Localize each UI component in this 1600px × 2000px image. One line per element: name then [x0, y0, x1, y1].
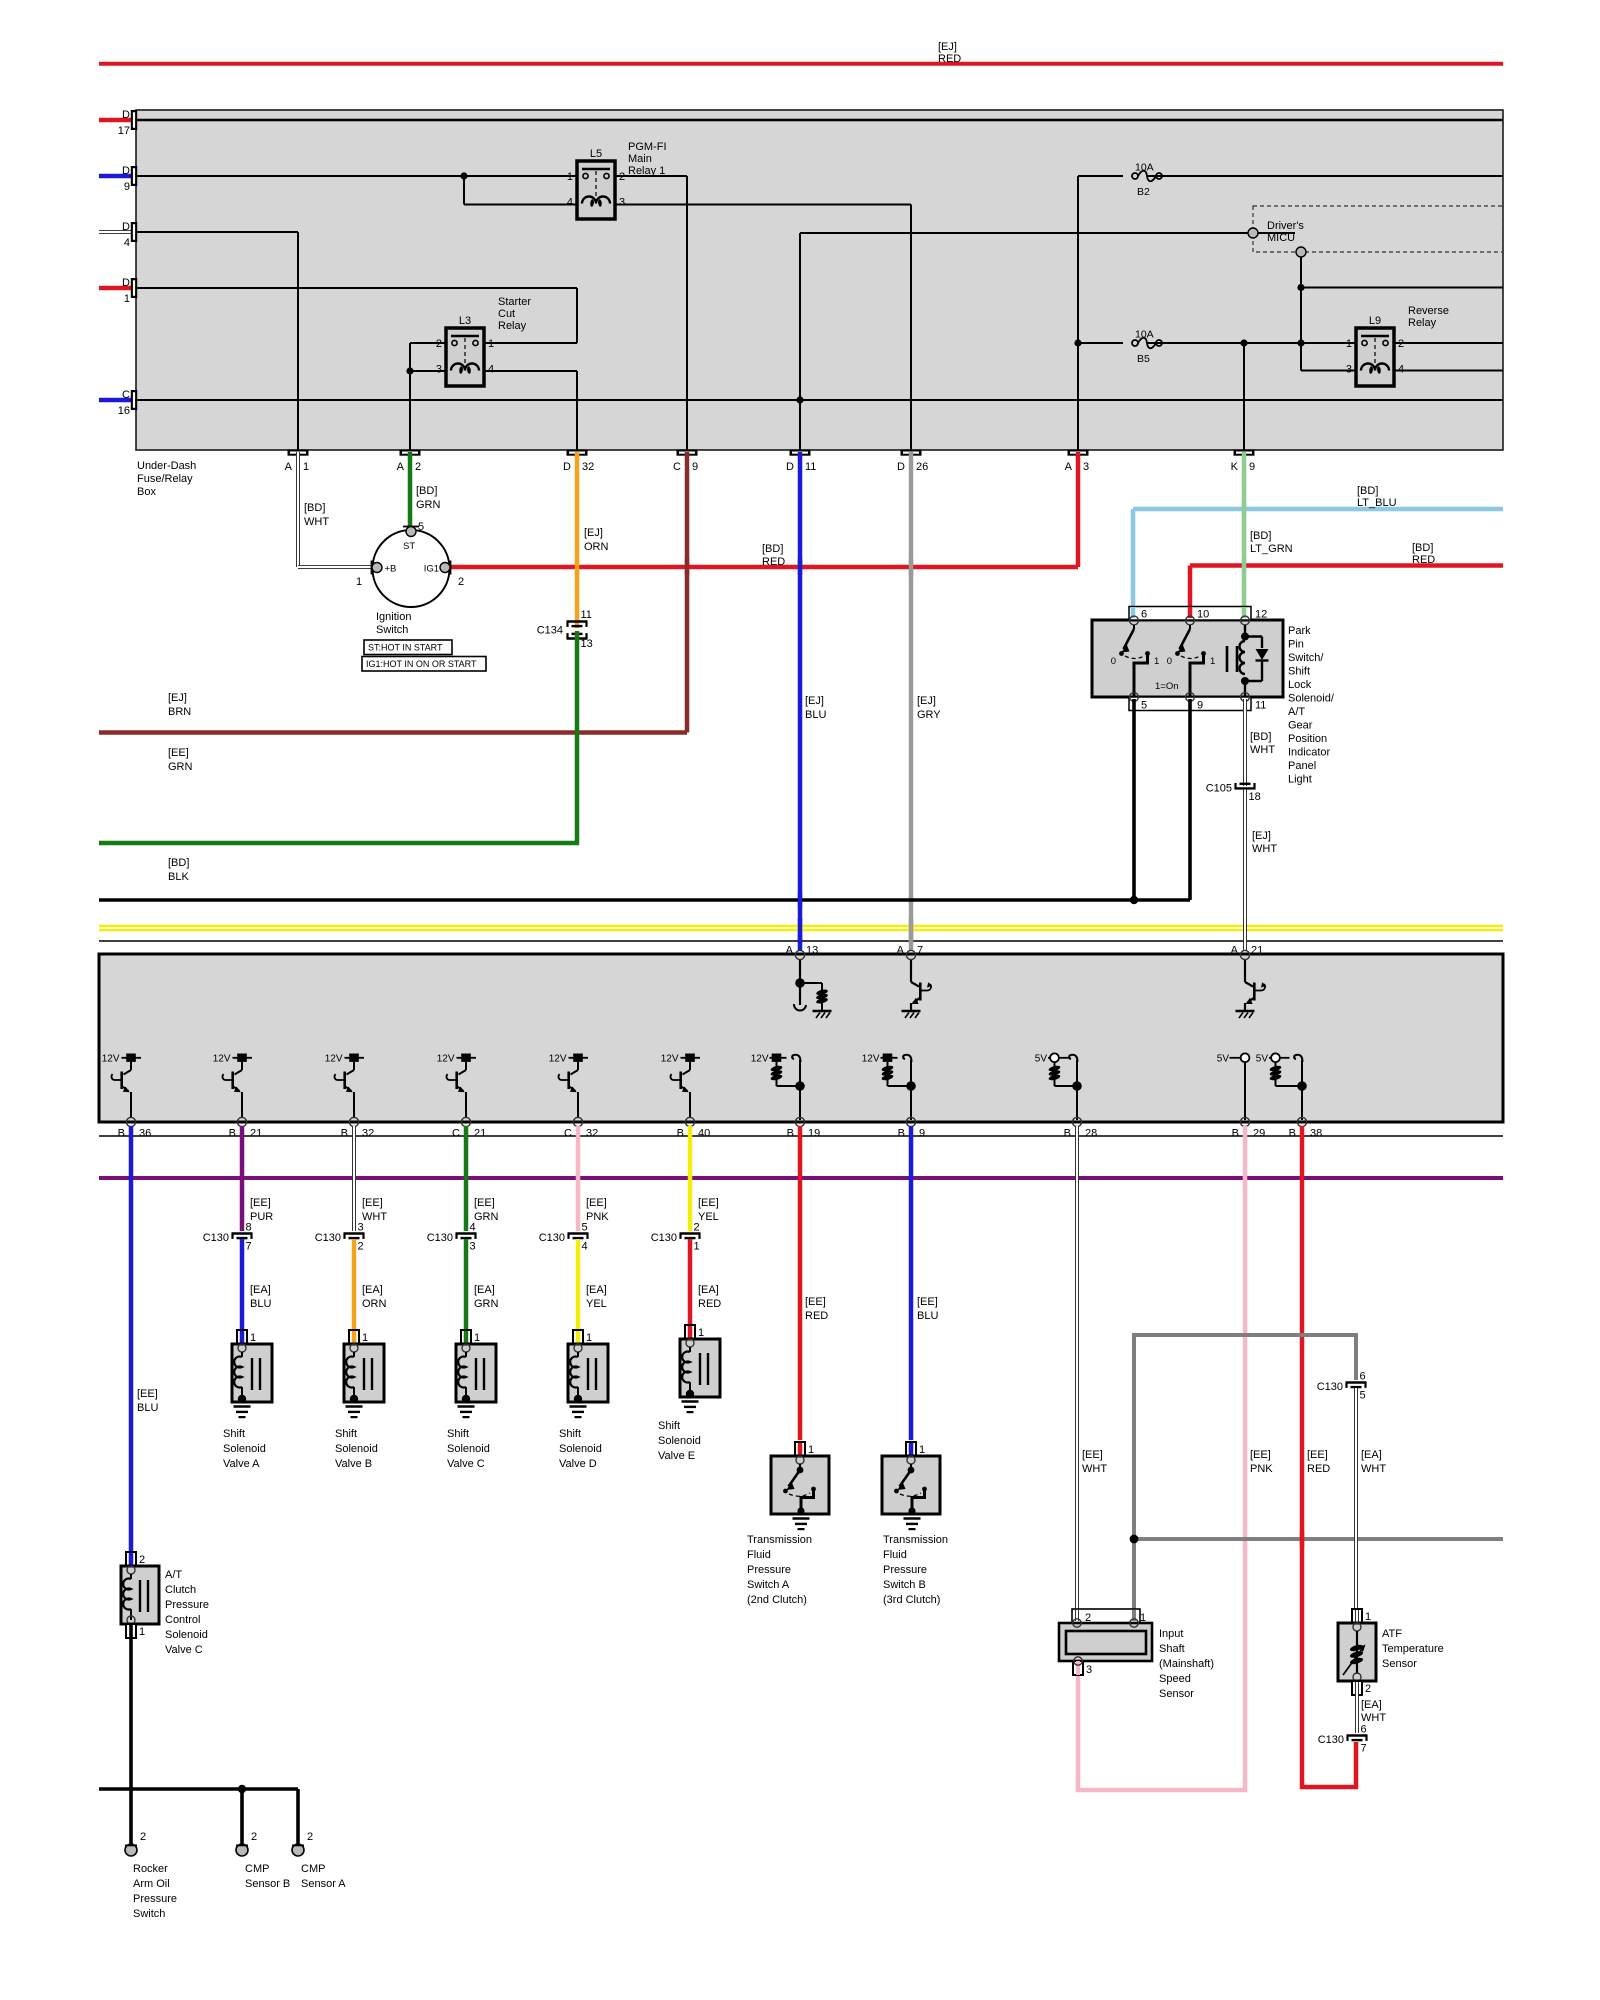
svg-text:[EE]: [EE]	[250, 1197, 271, 1209]
svg-text:Solenoid/: Solenoid/	[1288, 693, 1335, 705]
svg-text:2: 2	[139, 1554, 145, 1566]
svg-text:1: 1	[139, 1626, 145, 1638]
svg-text:Cut: Cut	[498, 308, 515, 320]
svg-text:Valve D: Valve D	[559, 1458, 597, 1470]
svg-text:Shift: Shift	[559, 1428, 581, 1440]
connector pin K9	[1234, 450, 1255, 456]
ECM pin A13	[795, 950, 804, 959]
svg-text:RED: RED	[1307, 1463, 1330, 1475]
svg-text:CMP: CMP	[245, 1863, 269, 1875]
svg-text:Valve E: Valve E	[658, 1450, 695, 1462]
svg-text:RED: RED	[698, 1298, 721, 1310]
svg-text:4: 4	[582, 1241, 588, 1253]
svg-text:B: B	[229, 1128, 236, 1140]
svg-text:ORN: ORN	[362, 1298, 387, 1310]
svg-text:[EJ]: [EJ]	[168, 692, 187, 704]
Under-Dash Fuse/Relay Box	[136, 110, 1503, 450]
ECM A7 transistor	[910, 960, 912, 982]
svg-text:WHT: WHT	[1250, 744, 1275, 756]
svg-text:C: C	[564, 1128, 572, 1140]
svg-text:BLU: BLU	[250, 1298, 271, 1310]
svg-text:Fluid: Fluid	[747, 1549, 771, 1561]
ECM connector rail top	[99, 940, 1503, 942]
connector C130 pins 2/1	[680, 1232, 701, 1234]
svg-text:BLK: BLK	[168, 871, 189, 883]
svg-text:[EE]: [EE]	[698, 1197, 719, 1209]
wire [EE] PUR bus	[99, 1176, 1503, 1180]
svg-text:28: 28	[1085, 1128, 1097, 1140]
wire [EA] WHT C130 to ATF pin1	[1354, 1388, 1358, 1609]
connector D17	[99, 118, 131, 123]
ECM A21 transistor	[1244, 960, 1246, 982]
svg-text:Valve C: Valve C	[165, 1644, 203, 1656]
wire [BD] LT_GRN K9 to park pin 12	[1242, 452, 1247, 618]
svg-text:C: C	[673, 461, 681, 473]
svg-text:3: 3	[1083, 461, 1089, 473]
svg-text:B: B	[677, 1128, 684, 1140]
svg-text:B2: B2	[1137, 186, 1150, 198]
connector pin D32	[567, 450, 588, 456]
svg-text:WHT: WHT	[1252, 843, 1277, 855]
svg-text:4: 4	[567, 197, 573, 209]
connector C16	[99, 398, 131, 403]
svg-text:[EE]: [EE]	[168, 747, 189, 759]
shift solenoid valve B	[349, 1330, 359, 1344]
svg-text:LT_BLU: LT_BLU	[1357, 497, 1397, 509]
svg-text:K: K	[1231, 461, 1239, 473]
svg-text:Transmission: Transmission	[747, 1534, 812, 1546]
relay L3 Starter Cut Relay	[446, 328, 484, 386]
wire MICU line with D11	[800, 232, 1295, 234]
svg-text:D: D	[563, 461, 571, 473]
CMP sensor B pin	[236, 1844, 248, 1856]
ECM box	[99, 954, 1503, 1122]
svg-text:Sensor: Sensor	[1159, 1688, 1194, 1700]
svg-text:1: 1	[1365, 1611, 1371, 1623]
svg-text:(2nd Clutch): (2nd Clutch)	[747, 1594, 807, 1606]
svg-text:10A: 10A	[1135, 162, 1154, 174]
wire [EE] BLU B9	[909, 1126, 914, 1440]
svg-text:[EE]: [EE]	[474, 1197, 495, 1209]
wire [EJ] BRN C9	[685, 452, 690, 733]
svg-text:[BD]: [BD]	[762, 543, 783, 555]
svg-text:Control: Control	[165, 1614, 200, 1626]
svg-text:0: 0	[1111, 656, 1116, 667]
wire L9 pin2 out	[1394, 342, 1503, 344]
svg-text:[BD]: [BD]	[1250, 731, 1271, 743]
svg-text:WHT: WHT	[1361, 1712, 1386, 1724]
svg-text:Temperature: Temperature	[1382, 1643, 1444, 1655]
park switch 2	[1186, 616, 1195, 625]
svg-text:1: 1	[694, 1241, 700, 1253]
svg-text:9: 9	[1197, 700, 1203, 712]
ECM pin B36	[126, 1117, 135, 1126]
svg-text:[BD]: [BD]	[416, 485, 437, 497]
svg-text:Solenoid: Solenoid	[223, 1443, 266, 1455]
svg-text:ST:HOT IN START: ST:HOT IN START	[368, 643, 443, 653]
wire C16 bus	[137, 399, 1503, 401]
svg-text:Relay 1: Relay 1	[628, 165, 665, 177]
shift solenoid valve C	[461, 1330, 471, 1344]
svg-text:12V: 12V	[213, 1054, 231, 1065]
svg-text:[EE]: [EE]	[1250, 1449, 1271, 1461]
svg-text:GRY: GRY	[917, 709, 941, 721]
wire [EE] PNK D-solenoid upper	[576, 1126, 581, 1231]
svg-text:5V: 5V	[1035, 1054, 1048, 1065]
svg-text:B: B	[341, 1128, 348, 1140]
wire black A/T solenoid to ground bus	[129, 1638, 133, 1844]
svg-text:GRN: GRN	[416, 499, 441, 511]
wire D1 to L3 pin1	[137, 287, 577, 289]
svg-text:[EA]: [EA]	[586, 1284, 607, 1296]
wire CMP sensor B drop	[240, 1789, 244, 1844]
svg-text:PNK: PNK	[586, 1211, 609, 1223]
input shaft (mainshaft) speed sensor	[1072, 1609, 1140, 1623]
svg-text:YEL: YEL	[698, 1211, 719, 1223]
ECM pin B9	[906, 1117, 915, 1126]
svg-text:C130: C130	[315, 1232, 341, 1244]
svg-text:Pressure: Pressure	[883, 1564, 927, 1576]
wire [BD] WHT A1 to ignition +B	[296, 452, 300, 567]
connector C130 pins 6/7	[1347, 1734, 1368, 1736]
svg-text:2: 2	[415, 461, 421, 473]
connector C130 pins 3/2	[344, 1232, 365, 1234]
svg-text:WHT: WHT	[362, 1211, 387, 1223]
svg-text:Switch A: Switch A	[747, 1579, 790, 1591]
shift solenoid valve D	[573, 1330, 583, 1344]
svg-text:2: 2	[619, 171, 625, 183]
svg-text:CMP: CMP	[301, 1863, 325, 1875]
svg-text:[EE]: [EE]	[362, 1197, 383, 1209]
svg-text:RED: RED	[805, 1310, 828, 1322]
ECM connector rail bottom	[99, 1135, 1503, 1137]
svg-text:Lock: Lock	[1288, 679, 1312, 691]
ATF temperature sensor	[1352, 1609, 1362, 1623]
svg-text:[EA]: [EA]	[1361, 1449, 1382, 1461]
svg-text:1: 1	[474, 1332, 480, 1344]
svg-text:1: 1	[362, 1332, 368, 1344]
svg-text:Valve A: Valve A	[223, 1458, 260, 1470]
svg-text:40: 40	[698, 1128, 710, 1140]
svg-text:17: 17	[118, 125, 130, 137]
svg-text:C: C	[122, 389, 130, 401]
svg-text:[EA]: [EA]	[250, 1284, 271, 1296]
wire [EE] GRN below C134	[99, 631, 577, 843]
svg-text:L9: L9	[1369, 315, 1381, 327]
transmission fluid pressure switch B	[906, 1442, 916, 1456]
svg-text:12: 12	[1255, 609, 1267, 621]
wire [EJ] ORN D32 to C134	[575, 452, 580, 628]
svg-text:1: 1	[1154, 656, 1159, 667]
A/T clutch pressure control solenoid valve C	[126, 1552, 136, 1566]
ECM A13 input resistor	[799, 960, 801, 1005]
wire to L3 pin3 and A2	[410, 370, 446, 372]
svg-text:WHT: WHT	[1361, 1463, 1386, 1475]
svg-text:[EE]: [EE]	[805, 1296, 826, 1308]
rocker arm oil pressure switch pin	[125, 1844, 137, 1856]
wire [EJ] BLU D11 to ECM A13	[798, 452, 803, 951]
svg-text:B: B	[1232, 1128, 1239, 1140]
svg-text:Switch B: Switch B	[883, 1579, 926, 1591]
shift solenoid valve A	[237, 1330, 247, 1344]
svg-text:Solenoid: Solenoid	[335, 1443, 378, 1455]
wire [BD] WHT park pin11 to C105	[1243, 699, 1247, 786]
svg-text:Clutch: Clutch	[165, 1584, 196, 1596]
wire [EE] YEL E-solenoid upper	[688, 1126, 693, 1231]
connector pin A3	[1068, 450, 1089, 456]
connector pin D11	[790, 450, 811, 456]
svg-text:10A: 10A	[1135, 329, 1154, 341]
wire L9 coil feed	[1301, 370, 1356, 372]
svg-text:Relay: Relay	[498, 320, 527, 332]
svg-text:[EJ]: [EJ]	[1252, 830, 1271, 842]
svg-text:4: 4	[488, 364, 494, 376]
transmission fluid pressure switch A	[795, 1442, 805, 1456]
svg-text:+B: +B	[385, 564, 397, 575]
svg-text:21: 21	[474, 1128, 486, 1140]
svg-text:12V: 12V	[862, 1054, 880, 1065]
svg-text:Sensor: Sensor	[1382, 1658, 1417, 1670]
wire [EJ] GRY D26 to ECM A7	[909, 452, 914, 951]
svg-text:2: 2	[307, 1831, 313, 1843]
svg-text:RED: RED	[762, 556, 785, 568]
svg-text:RED: RED	[938, 53, 961, 65]
svg-text:Pressure: Pressure	[165, 1599, 209, 1611]
svg-text:[EE]: [EE]	[1082, 1449, 1103, 1461]
svg-text:11: 11	[1255, 700, 1266, 712]
svg-text:Shaft: Shaft	[1159, 1643, 1185, 1655]
svg-text:[EE]: [EE]	[137, 1388, 158, 1400]
ECM pin B40	[685, 1117, 694, 1126]
svg-text:2: 2	[458, 576, 464, 588]
connector C130 pins 4/3	[456, 1232, 477, 1234]
svg-text:A: A	[897, 945, 905, 957]
svg-text:1: 1	[488, 338, 494, 350]
svg-text:2: 2	[358, 1241, 364, 1253]
svg-text:[EJ]: [EJ]	[584, 527, 603, 539]
svg-text:[EE]: [EE]	[1307, 1449, 1328, 1461]
wire yellow pair	[99, 925, 1503, 928]
connector C130 pins 8/7	[232, 1232, 253, 1234]
ECM pin B38	[1297, 1117, 1306, 1126]
connector pin D26	[901, 450, 922, 456]
svg-text:1: 1	[698, 1327, 704, 1339]
svg-text:Light: Light	[1288, 774, 1312, 786]
shift solenoid valve E	[685, 1325, 695, 1339]
svg-text:Solenoid: Solenoid	[447, 1443, 490, 1455]
svg-text:ST: ST	[403, 541, 415, 552]
wire [EE] PUR A-solenoid upper	[240, 1126, 245, 1231]
wire D9 to relay L5	[137, 175, 577, 177]
svg-text:Speed: Speed	[1159, 1673, 1191, 1685]
shift lock solenoid with diode	[1241, 616, 1250, 625]
svg-text:Sensor A: Sensor A	[301, 1878, 346, 1890]
svg-text:21: 21	[1251, 945, 1263, 957]
svg-text:C130: C130	[1318, 1734, 1344, 1746]
svg-text:2: 2	[694, 1222, 700, 1234]
svg-text:[EA]: [EA]	[474, 1284, 495, 1296]
svg-text:Shift: Shift	[335, 1428, 357, 1440]
svg-text:6: 6	[1141, 609, 1147, 621]
junction	[1240, 339, 1247, 346]
svg-text:13: 13	[806, 945, 818, 957]
wire [EE] RED B38	[1302, 1126, 1356, 1787]
svg-text:3: 3	[1346, 364, 1352, 376]
svg-text:ATF: ATF	[1382, 1628, 1402, 1640]
svg-text:2: 2	[251, 1831, 257, 1843]
svg-text:5: 5	[582, 1222, 588, 1234]
svg-text:Relay: Relay	[1408, 317, 1437, 329]
connector pin C9	[677, 450, 698, 456]
svg-text:32: 32	[582, 461, 594, 473]
svg-text:Valve B: Valve B	[335, 1458, 372, 1470]
svg-text:3: 3	[470, 1241, 476, 1253]
relay L9 Reverse Relay	[1356, 328, 1394, 386]
note ST:HOT IN START	[364, 640, 452, 655]
svg-text:[BD]: [BD]	[304, 502, 325, 514]
svg-text:5V: 5V	[1217, 1054, 1230, 1065]
svg-text:7: 7	[917, 945, 923, 957]
svg-text:[EJ]: [EJ]	[917, 695, 936, 707]
wire [EA] RED E-solenoid lower	[688, 1239, 693, 1327]
svg-text:1: 1	[1210, 656, 1215, 667]
wire L3 pin2 loop	[410, 342, 446, 344]
svg-text:Under-Dash: Under-Dash	[137, 460, 196, 472]
svg-text:12V: 12V	[751, 1054, 769, 1065]
svg-text:Switch/: Switch/	[1288, 652, 1324, 664]
connector D4	[99, 230, 131, 234]
ECM pin B29	[1240, 1117, 1249, 1126]
svg-text:5: 5	[1360, 1390, 1366, 1402]
svg-text:[BD]: [BD]	[1250, 530, 1271, 542]
svg-text:6: 6	[1360, 1371, 1366, 1383]
junction	[796, 396, 803, 403]
svg-text:Rocker: Rocker	[133, 1863, 168, 1875]
svg-text:Shift: Shift	[447, 1428, 469, 1440]
junction	[1074, 339, 1081, 346]
wire [EE] WHT B-solenoid upper	[352, 1126, 356, 1231]
svg-text:C130: C130	[203, 1232, 229, 1244]
wire to right edge	[1301, 287, 1503, 289]
svg-text:18: 18	[1249, 791, 1261, 803]
svg-text:1: 1	[919, 1444, 925, 1456]
svg-text:[EE]: [EE]	[586, 1197, 607, 1209]
svg-text:A/T: A/T	[1288, 706, 1305, 718]
wire black ground bus	[99, 1787, 298, 1791]
svg-text:D: D	[897, 461, 905, 473]
svg-text:B5: B5	[1137, 353, 1150, 365]
svg-text:Pin: Pin	[1288, 639, 1304, 651]
svg-text:Solenoid: Solenoid	[165, 1629, 208, 1641]
svg-text:4: 4	[124, 237, 130, 249]
wire MICU bottom branch	[1300, 257, 1302, 371]
svg-text:Position: Position	[1288, 733, 1327, 745]
svg-text:Ignition: Ignition	[376, 611, 411, 623]
svg-text:9: 9	[124, 181, 130, 193]
wire L5 pin3 to D26	[615, 204, 911, 206]
svg-text:8: 8	[246, 1222, 252, 1234]
svg-text:[EA]: [EA]	[698, 1284, 719, 1296]
svg-text:4: 4	[1398, 364, 1404, 376]
svg-text:Switch: Switch	[376, 624, 408, 636]
ignition switch	[373, 530, 450, 607]
connector C130 pins 5/4	[568, 1232, 589, 1234]
svg-text:Switch: Switch	[133, 1908, 165, 1920]
wire D4 to A1	[137, 231, 298, 233]
svg-text:32: 32	[362, 1128, 374, 1140]
wire CMP sensor A drop	[296, 1789, 300, 1844]
svg-text:12V: 12V	[102, 1054, 120, 1065]
svg-text:A: A	[285, 461, 293, 473]
wire D17 feed	[137, 119, 1503, 121]
svg-text:0: 0	[1167, 656, 1172, 667]
svg-text:7: 7	[1361, 1743, 1367, 1755]
svg-text:29: 29	[1253, 1128, 1265, 1140]
svg-text:7: 7	[246, 1241, 252, 1253]
svg-text:B: B	[787, 1128, 794, 1140]
svg-text:12V: 12V	[549, 1054, 567, 1065]
wire [EJ] WHT C105 to ECM A21	[1243, 790, 1247, 952]
svg-text:Fluid: Fluid	[883, 1549, 907, 1561]
svg-text:IG1:HOT IN ON OR START: IG1:HOT IN ON OR START	[366, 659, 477, 669]
svg-text:Fuse/Relay: Fuse/Relay	[137, 473, 193, 485]
wire [EE] RED B19	[798, 1126, 803, 1440]
park switch 1	[1130, 616, 1139, 625]
svg-text:[EJ]: [EJ]	[805, 695, 824, 707]
svg-text:1: 1	[808, 1444, 814, 1456]
svg-text:Shift: Shift	[223, 1428, 245, 1440]
svg-text:Panel: Panel	[1288, 760, 1316, 772]
svg-text:1: 1	[250, 1332, 256, 1344]
svg-text:Sensor B: Sensor B	[245, 1878, 290, 1890]
svg-text:BLU: BLU	[137, 1402, 158, 1414]
svg-text:6: 6	[1361, 1724, 1367, 1736]
svg-text:(Mainshaft): (Mainshaft)	[1159, 1658, 1214, 1670]
svg-text:2: 2	[1365, 1683, 1371, 1695]
wire [EA] BLU A-solenoid lower	[240, 1239, 245, 1332]
svg-text:PGM-FI: PGM-FI	[628, 141, 667, 153]
wire K9 drop	[1243, 343, 1245, 450]
svg-text:11: 11	[581, 609, 592, 621]
junction	[1297, 284, 1304, 291]
svg-text:[BD]: [BD]	[1357, 485, 1378, 497]
connector C134	[567, 620, 588, 622]
svg-text:C: C	[452, 1128, 460, 1140]
svg-text:Solenoid: Solenoid	[658, 1435, 701, 1447]
ECM pin C21	[461, 1117, 470, 1126]
junction	[238, 1785, 246, 1793]
park pin switch assembly	[1092, 620, 1283, 697]
svg-text:4: 4	[470, 1222, 476, 1234]
connector C130 pins 6/5	[1346, 1381, 1367, 1383]
svg-text:YEL: YEL	[586, 1298, 607, 1310]
ECM pin B19	[795, 1117, 804, 1126]
fuse B2 10A	[1123, 168, 1147, 184]
junction	[406, 367, 413, 374]
svg-text:WHT: WHT	[304, 516, 329, 528]
svg-text:10: 10	[1197, 609, 1209, 621]
ECM pin B32	[349, 1117, 358, 1126]
svg-text:32: 32	[586, 1128, 598, 1140]
wire [EE] WHT B28 to input shaft sensor	[1075, 1126, 1079, 1609]
svg-text:L3: L3	[459, 315, 471, 327]
svg-text:1: 1	[303, 461, 309, 473]
svg-text:1: 1	[356, 576, 362, 588]
ECM pin C32	[573, 1117, 582, 1126]
wire [EA] GRN C-solenoid lower	[464, 1239, 469, 1332]
svg-text:12V: 12V	[661, 1054, 679, 1065]
ECM pin B21	[237, 1117, 246, 1126]
